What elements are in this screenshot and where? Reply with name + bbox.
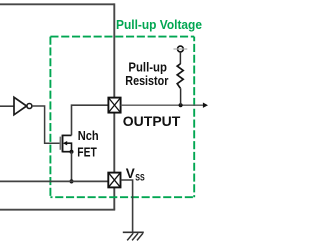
transistor Q1 channel bar bbox=[62, 135, 64, 153]
wire: OUTPUT pad to external node with arrow bbox=[121, 104, 204, 106]
svg-text:V: V bbox=[126, 166, 135, 181]
transistor Q1 source tap bbox=[63, 151, 72, 153]
Vss pad X-box bbox=[108, 173, 120, 188]
pull-up terminal circle bbox=[178, 46, 184, 52]
transistor Q1 drain tap bbox=[63, 134, 72, 136]
chip outline right edge (between pads) bbox=[113, 113, 115, 173]
wire: terminal to resistor bbox=[179, 52, 181, 64]
wire: resistor to junction bbox=[180, 88, 182, 105]
transistor Q1 Nch FET gate bar bbox=[59, 137, 61, 150]
inverter U1 triangle bbox=[14, 97, 27, 115]
transistor Q1 body tap with arrow bbox=[66, 143, 72, 152]
svg-text:FET: FET bbox=[77, 144, 97, 159]
junction dot on Vss rail bbox=[69, 179, 73, 183]
wire: FET drain up and right to OUTPUT pad bbox=[72, 105, 109, 135]
svg-text:Nch: Nch bbox=[78, 128, 99, 143]
svg-text:SS: SS bbox=[135, 172, 144, 182]
resistor R1 (pull-up) bbox=[177, 64, 183, 89]
chip outline top edge bbox=[0, 3, 114, 5]
ground symbol bar bbox=[123, 231, 144, 233]
chip outline right edge (below Vss pad) bbox=[113, 187, 115, 209]
inverter U1 output bubble bbox=[27, 104, 32, 109]
svg-text:Resistor: Resistor bbox=[125, 73, 168, 88]
chip outline right edge (pad column, upper) bbox=[113, 3, 115, 97]
wire: inverter output to FET gate bbox=[32, 106, 60, 143]
OUTPUT pad X-box bbox=[108, 98, 120, 113]
svg-text:OUTPUT: OUTPUT bbox=[123, 113, 181, 129]
wire: input to inverter bbox=[0, 105, 14, 107]
ground symbol hatches bbox=[127, 233, 143, 240]
green dashed box (pull-up voltage domain) bbox=[50, 37, 194, 198]
junction dot at FET source bbox=[70, 150, 74, 154]
Vss rail wire bbox=[0, 180, 108, 182]
wire: FET source down to Vss rail bbox=[71, 152, 73, 182]
wire: Vss pad to ground bbox=[121, 180, 133, 232]
chip outline bottom edge bbox=[0, 209, 115, 211]
svg-text:Pull-up Voltage: Pull-up Voltage bbox=[116, 18, 202, 32]
pull-up terminal ticks bbox=[174, 48, 188, 50]
junction dot at resistor bottom bbox=[179, 103, 183, 107]
